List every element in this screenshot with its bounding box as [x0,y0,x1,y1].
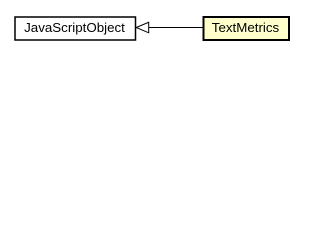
class box JavaScriptObject [15,17,136,40]
wire: connector line from arrowhead to TextMetrics box [149,27,204,29]
svg-text:JavaScriptObject: JavaScriptObject [24,20,125,35]
class box TextMetrics (highlighted current class) [204,17,290,40]
inheritance arrowhead (hollow triangle pointing at JavaScriptObject) [136,22,149,33]
svg-text:TextMetrics: TextMetrics [212,20,280,35]
